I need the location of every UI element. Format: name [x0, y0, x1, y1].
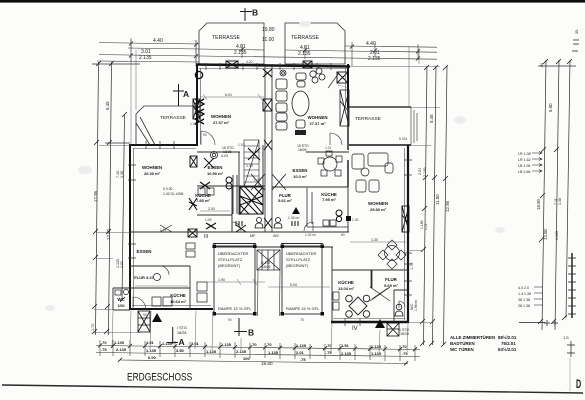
pier X left annex east wall — [189, 198, 197, 210]
III bars right — [292, 221, 298, 226]
center path verticals — [258, 270, 281, 316]
right-mid dimension line 1 — [424, 66, 428, 345]
svg-text:7.85 m²: 7.85 m² — [196, 198, 210, 203]
svg-text:4.20: 4.20 — [246, 60, 253, 64]
svg-text:5.45: 5.45 — [429, 114, 434, 123]
svg-text:ESSEN: ESSEN — [208, 165, 223, 170]
extension lines top — [131, 40, 419, 145]
inner face right upper wall — [345, 68, 347, 107]
pier left annex 2 — [188, 229, 197, 237]
bottom dim ticks — [98, 344, 417, 366]
kueche left counter — [233, 175, 237, 214]
dim kueche left — [200, 210, 230, 212]
dim carport left — [200, 279, 265, 285]
top dim tick crosses — [129, 42, 420, 61]
svg-text:WOHNEN: WOHNEN — [211, 114, 231, 119]
far right dimension line 3 — [566, 60, 570, 318]
window left annex wall 2 — [128, 244, 136, 258]
terrace right steps — [411, 107, 417, 145]
stairwell hatch center — [240, 187, 263, 214]
party wall double line — [265, 64, 272, 232]
wc lower left fixtures — [115, 289, 129, 295]
wall left outer — [129, 144, 131, 310]
svg-text:2.135: 2.135 — [368, 56, 381, 62]
furniture upper right wohnen — [276, 68, 325, 130]
svg-text:MF: MF — [250, 234, 256, 238]
svg-text:TERRASSE: TERRASSE — [160, 115, 186, 121]
bottom dim verticals — [100, 340, 415, 361]
svg-text:RAMPE 15 % GFL: RAMPE 15 % GFL — [218, 306, 252, 311]
left dimension line 3 — [122, 115, 125, 300]
pier right corner — [337, 72, 348, 83]
svg-text:WC TÜREN: WC TÜREN — [450, 347, 474, 352]
carport corner blobs — [213, 245, 325, 316]
svg-text:IV: IV — [352, 326, 358, 332]
svg-text:TERRASSE: TERRASSE — [291, 35, 320, 41]
svg-text:.70: .70 — [251, 342, 257, 347]
svg-text:ESSEN: ESSEN — [293, 168, 308, 173]
svg-text:.75: .75 — [402, 351, 408, 356]
III bars left — [236, 221, 242, 226]
svg-text:4.40: 4.40 — [366, 41, 376, 47]
svg-text:.75: .75 — [326, 350, 332, 355]
svg-text:1.135: 1.135 — [206, 349, 217, 354]
svg-text:100: 100 — [243, 356, 250, 361]
svg-text:ALLE ZIMMERTÜREN: ALLE ZIMMERTÜREN — [450, 335, 495, 340]
svg-text:.75: .75 — [300, 357, 306, 362]
scan top edge bar — [0, 0, 585, 3]
window bottom right wall — [345, 318, 360, 326]
inner face bottom left annex — [132, 305, 211, 307]
right-mid dimension line 3 — [444, 66, 448, 345]
svg-text:WOHNEN: WOHNEN — [307, 115, 327, 120]
svg-text:88½/2.01: 88½/2.01 — [498, 335, 517, 340]
door arc wohnen left — [201, 131, 215, 145]
entrance triangle right — [375, 319, 385, 328]
faint vertical near D — [569, 358, 571, 391]
window right wall 1 — [404, 160, 412, 175]
svg-text:FLUR: FLUR — [385, 277, 398, 282]
door flur right — [304, 222, 313, 231]
svg-text:5.61 m²: 5.61 m² — [278, 198, 292, 203]
door terrace right — [330, 133, 342, 145]
svg-text:60: 60 — [341, 233, 345, 237]
svg-text:.75: .75 — [101, 347, 107, 352]
dim carport right — [268, 286, 330, 288]
svg-text:1.135: 1.135 — [296, 343, 307, 348]
scattered small dims — [143, 60, 407, 322]
svg-text:LB 2.08: LB 2.08 — [518, 164, 530, 168]
bottom dim numbers row2 — [101, 347, 408, 356]
wall x333 lower right block left — [331, 247, 333, 322]
svg-text:1.135: 1.135 — [221, 342, 232, 347]
vent circle left wall — [195, 71, 202, 78]
svg-text:LR 1.62: LR 1.62 — [518, 158, 531, 162]
right-mid dimension line 2 — [433, 66, 437, 345]
svg-text:1.38: 1.38 — [190, 122, 197, 126]
stair treads left — [244, 140, 259, 187]
svg-text:1.01: 1.01 — [325, 146, 332, 150]
pier left wall — [193, 99, 200, 119]
svg-text:18/26: 18/26 — [262, 265, 271, 269]
wc triangle center — [292, 207, 300, 214]
door kueche left — [232, 222, 241, 231]
svg-text:WC: WC — [273, 234, 280, 238]
svg-text:75: 75 — [300, 318, 304, 322]
svg-text:17.95: 17.95 — [93, 190, 98, 202]
left dim ticks — [92, 61, 127, 334]
svg-text:FLUR 3.47: FLUR 3.47 — [134, 275, 154, 280]
window ticks on outer walls — [128, 63, 412, 326]
svg-text:11.50: 11.50 — [435, 194, 440, 205]
inner face top left annex — [133, 148, 196, 150]
svg-text:A: A — [179, 337, 185, 347]
svg-text:II 0.30: II 0.30 — [163, 187, 173, 191]
svg-text:1.30: 1.30 — [352, 218, 359, 222]
small tick line above tueren — [519, 320, 558, 326]
stair lower left — [138, 311, 150, 332]
inner face right lower — [404, 148, 406, 320]
inner face left outer — [133, 148, 135, 307]
svg-text:2.01: 2.01 — [296, 350, 305, 355]
svg-text:11.00: 11.00 — [262, 37, 274, 43]
stove left kueche — [226, 177, 232, 189]
svg-text:(BEGRÜNT): (BEGRÜNT) — [218, 263, 241, 268]
door X mark lower left — [206, 223, 216, 229]
svg-text:.70: .70 — [266, 342, 272, 347]
svg-text:STELLPLATZ: STELLPLATZ — [218, 257, 243, 262]
svg-text:5.90: 5.90 — [548, 103, 553, 112]
svg-text:2.135: 2.135 — [116, 347, 127, 352]
door diagonal top right — [328, 73, 339, 88]
door lower right — [399, 301, 405, 308]
svg-text:1.42 GL.UNN: 1.42 GL.UNN — [163, 192, 184, 196]
svg-text:III: III — [204, 234, 208, 240]
svg-text:LR 1.08: LR 1.08 — [518, 152, 531, 156]
svg-text:1.135: 1.135 — [268, 350, 279, 355]
inner face left upper wall — [200, 68, 202, 144]
far right dimension line 1 — [542, 60, 546, 330]
svg-text:6.00: 6.00 — [148, 355, 157, 360]
toilet figure right of party — [274, 218, 282, 229]
wall y288 lower left — [130, 287, 190, 289]
svg-text:1.135: 1.135 — [114, 340, 125, 345]
left dim tick row top — [92, 63, 140, 65]
wall wc lower right — [394, 290, 408, 322]
svg-text:5.45: 5.45 — [105, 101, 110, 110]
svg-text:1.30: 1.30 — [371, 238, 378, 242]
svg-text:1.96 m²: 1.96 m² — [414, 299, 418, 311]
door arcs — [133, 133, 405, 310]
wall top of left annex — [129, 144, 197, 146]
right scale ruler — [571, 253, 573, 318]
window top wall 3 — [280, 63, 294, 70]
door lower left flur — [160, 266, 169, 275]
wall top of right terrace — [349, 106, 411, 108]
svg-text:1.42 m²: 1.42 m² — [305, 233, 317, 237]
svg-text:ESSEN: ESSEN — [137, 249, 152, 254]
svg-text:3.50: 3.50 — [176, 348, 185, 353]
bottom dim line 1 — [96, 346, 420, 350]
svg-text:1.10: 1.10 — [246, 164, 253, 168]
carport left — [213, 244, 256, 315]
interior dim lines — [135, 85, 406, 287]
svg-text:1.5: 1.5 — [563, 335, 569, 340]
svg-text:100l: 100l — [118, 304, 125, 308]
svg-text:2.00: 2.00 — [208, 207, 215, 211]
svg-text:2.135: 2.135 — [423, 167, 427, 177]
svg-text:1.135: 1.135 — [555, 231, 559, 240]
svg-text:18/26: 18/26 — [298, 148, 307, 152]
wall bottom left annex — [129, 308, 213, 310]
section marker A bottom — [167, 327, 178, 344]
lamp circle essen left — [211, 152, 218, 159]
far right rotated dims — [536, 29, 579, 240]
left dimension line 1 — [96, 62, 99, 335]
svg-text:RAMPE 15 % GFL: RAMPE 15 % GFL — [286, 306, 320, 311]
door swing triangles essen right — [272, 174, 286, 190]
wall essen right — [306, 151, 349, 153]
svg-text:10.50 m²: 10.50 m² — [207, 171, 224, 176]
svg-text:4.40: 4.40 — [153, 38, 163, 44]
pier top wall a — [226, 61, 238, 68]
wall x375 lower right — [371, 270, 373, 288]
svg-text:1.70: 1.70 — [91, 324, 95, 331]
interior dim numbers — [208, 93, 378, 287]
svg-text:26.30 m²: 26.30 m² — [144, 171, 161, 176]
section marker B top — [240, 8, 252, 21]
svg-text:I STG: I STG — [177, 326, 187, 330]
scan smudges — [45, 21, 505, 311]
wall piers hatched — [188, 61, 409, 237]
svg-text:WOHNEN: WOHNEN — [368, 201, 388, 206]
oval table — [292, 91, 309, 116]
door left entrance — [133, 297, 146, 310]
far right dimension line 2 — [555, 60, 559, 330]
svg-text:27.37 m²: 27.37 m² — [213, 120, 230, 125]
square table lower right kueche — [346, 295, 370, 317]
svg-text:ÜBERDACHTER: ÜBERDACHTER — [286, 251, 317, 256]
junction blob — [346, 216, 351, 221]
svg-text:TERRASSE: TERRASSE — [212, 35, 241, 41]
bottom rect — [296, 120, 305, 128]
bottom dim line 3 — [120, 360, 408, 364]
wall kueche left top — [197, 185, 265, 187]
svg-text:STELLPLATZ: STELLPLATZ — [286, 257, 311, 262]
bottom dim numbers row1 — [101, 340, 407, 349]
svg-text:5.315: 5.315 — [399, 137, 407, 141]
wall kueche right top — [272, 186, 348, 188]
svg-text:10.64 m²: 10.64 m² — [170, 299, 187, 304]
toilet figure left of party — [255, 218, 263, 229]
far right top tick — [538, 65, 576, 67]
far right LR arrows — [532, 152, 542, 173]
chimney pier right wall — [340, 90, 349, 126]
kueche right counter — [307, 188, 348, 227]
inner face bottom right — [333, 318, 405, 320]
svg-text:1.135: 1.135 — [162, 341, 173, 346]
dim right wohnen — [350, 241, 406, 243]
svg-text:10.0 m²: 10.0 m² — [293, 174, 307, 179]
svg-text:25.80 m²: 25.80 m² — [370, 207, 387, 212]
svg-text:2.135: 2.135 — [341, 351, 352, 356]
wall left of upper block — [196, 64, 198, 146]
dark zigzag left wall — [195, 99, 204, 124]
svg-text:2.135: 2.135 — [234, 50, 247, 56]
svg-text:.70: .70 — [101, 340, 107, 345]
far right lower arrows — [534, 287, 543, 305]
stair lower right — [387, 323, 399, 336]
terrace left mid trapezoid — [136, 106, 196, 145]
kueche left sink rects — [198, 188, 214, 195]
extension lines left — [93, 146, 140, 333]
svg-text:2.135: 2.135 — [139, 55, 152, 61]
svg-text:2.01: 2.01 — [418, 168, 422, 175]
wall top of upper block — [196, 65, 350, 67]
far right lower text block — [518, 286, 531, 308]
svg-text:1.01: 1.01 — [160, 228, 167, 232]
svg-text:1.38: 1.38 — [120, 171, 124, 178]
svg-text:B: B — [252, 8, 258, 18]
wall kueche left side — [231, 186, 233, 232]
door X mark upper party — [248, 148, 260, 160]
svg-text:ERDGESCHOSS: ERDGESCHOSS — [127, 371, 192, 384]
svg-text:19.80: 19.80 — [261, 361, 273, 366]
sofa group lower right wohnen — [352, 153, 393, 192]
entrance triangle left — [152, 313, 162, 322]
window right wall 2 — [404, 253, 412, 295]
sofa squares column — [276, 79, 287, 89]
pier X party wall mid — [264, 140, 272, 150]
svg-text:90: 90 — [228, 318, 232, 322]
interior walls — [113, 152, 408, 322]
svg-text:13.04 m²: 13.04 m² — [338, 286, 355, 291]
door swing lower right flur — [370, 287, 390, 301]
svg-text:63½/2.01: 63½/2.01 — [498, 347, 517, 352]
right-mid dim ticks — [420, 65, 448, 347]
svg-text:12.50: 12.50 — [543, 228, 548, 240]
svg-text:2.135: 2.135 — [298, 51, 311, 57]
svg-text:1.10: 1.10 — [238, 143, 245, 147]
wall essen/wohnen left — [197, 151, 240, 153]
round chairs top — [310, 71, 316, 77]
door swing left annex — [160, 225, 172, 232]
dim wohnen right — [338, 85, 348, 88]
svg-text:1.4 1.38: 1.4 1.38 — [518, 292, 531, 296]
window top wall 2 — [243, 63, 257, 70]
svg-text:WOHNEN: WOHNEN — [142, 165, 162, 170]
kueche lower right counter — [333, 292, 339, 310]
inner face top wall — [199, 68, 347, 70]
svg-text:27.37 m²: 27.37 m² — [309, 121, 326, 126]
bottom dimension strip — [96, 340, 420, 364]
toilet figure lower right — [395, 304, 403, 316]
pier top wall b — [303, 61, 312, 68]
svg-text:1.135: 1.135 — [146, 348, 157, 353]
couch dark bar — [295, 130, 306, 135]
top dimension lines — [97, 38, 437, 66]
svg-text:A: A — [183, 89, 189, 99]
svg-text:5.65 m²: 5.65 m² — [384, 283, 398, 288]
svg-text:35.: 35. — [575, 29, 579, 34]
stair enclosure walls — [239, 145, 263, 215]
lamp circle — [280, 70, 286, 76]
terrace left (top) — [199, 23, 264, 64]
left dimension line 2 — [109, 62, 112, 335]
left dim tick mid — [105, 142, 130, 144]
svg-text:1.32: 1.32 — [254, 178, 261, 182]
svg-text:B: B — [248, 328, 254, 338]
window y145 left — [146, 141, 174, 149]
stacked rects — [296, 73, 306, 80]
pier left annex — [190, 156, 197, 167]
svg-text:12.95: 12.95 — [445, 200, 450, 212]
svg-text:90: 90 — [143, 313, 147, 317]
window top wall 1 — [206, 63, 220, 70]
svg-text:90: 90 — [203, 133, 207, 137]
tueren note block — [450, 335, 517, 352]
central entrance stair between carports — [257, 250, 280, 270]
far right LR text block — [518, 152, 531, 174]
extension lines right — [350, 67, 440, 323]
svg-text:26 1.38: 26 1.38 — [518, 304, 530, 308]
room labels — [117, 114, 398, 308]
terrace right (top) — [285, 23, 345, 64]
svg-text:1.38: 1.38 — [558, 198, 562, 205]
wall flur lower left — [130, 265, 190, 267]
svg-text:1.01: 1.01 — [120, 261, 124, 268]
pier right wall lower — [402, 206, 409, 232]
svg-text:5.00: 5.00 — [290, 283, 297, 287]
wall kueche right side — [347, 186, 349, 232]
wall y232 right — [272, 231, 349, 233]
svg-text:19.80: 19.80 — [262, 27, 275, 33]
door X center lower — [236, 225, 246, 232]
wall x190 lower left — [189, 266, 191, 309]
svg-text:1.135: 1.135 — [371, 344, 382, 349]
svg-text:18/28: 18/28 — [177, 331, 187, 335]
svg-text:BADTÜREN: BADTÜREN — [450, 341, 475, 346]
extension lines bottom — [112, 311, 408, 352]
stove right kueche — [336, 210, 342, 222]
svg-text:6.01: 6.01 — [225, 93, 232, 97]
section marker B bottom — [234, 318, 247, 336]
svg-text:1.90: 1.90 — [218, 278, 225, 282]
bottom title line — [2, 385, 583, 393]
wall y247 carports top — [213, 246, 333, 248]
bottom dim line 2 — [96, 353, 420, 357]
carport right — [281, 244, 323, 315]
svg-text:76/2.01: 76/2.01 — [501, 341, 516, 346]
wc bump lower left — [113, 288, 130, 310]
far right small ticks top — [538, 40, 579, 324]
pier X party wall top — [263, 69, 272, 77]
svg-text:D: D — [576, 378, 581, 391]
svg-text:1.32 m²: 1.32 m² — [288, 216, 300, 220]
svg-text:.70: .70 — [401, 344, 407, 349]
wall right unit middle vertical — [347, 107, 349, 187]
pier party wall top — [263, 99, 272, 111]
svg-text:1.05: 1.05 — [205, 218, 212, 222]
outer walls thick — [129, 64, 411, 323]
svg-text:18.50: 18.50 — [536, 198, 541, 210]
svg-text:LB 2.68: LB 2.68 — [518, 170, 530, 174]
svg-text:4.03: 4.03 — [221, 154, 228, 158]
svg-text:1.01: 1.01 — [424, 223, 428, 230]
wall bottom right — [331, 321, 409, 323]
svg-text:38 1.38: 38 1.38 — [518, 298, 530, 302]
wall y268 lower right — [332, 269, 408, 271]
